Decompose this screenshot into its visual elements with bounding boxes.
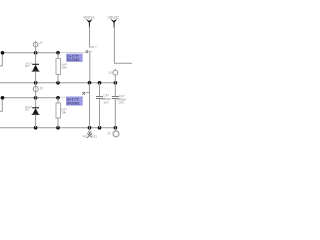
label resistor R2 value (61, 111, 66, 114)
wire rail1 faint segment to net tie (58, 52, 85, 54)
label U2 name (67, 98, 79, 102)
wire rail2 to capacitor C2 (114, 83, 116, 96)
wire rail2 to terminal Z2 (35, 83, 37, 87)
terminal circle Z1 (33, 42, 38, 47)
label Z1 (39, 42, 43, 46)
node rail2 x35.6 (34, 81, 38, 85)
diode Z+2 cathode bar (32, 107, 39, 109)
node rail1 resistor column (56, 51, 60, 55)
wire diode D1 to rail2 (35, 71, 37, 83)
label capacitor C1 value (101, 98, 111, 101)
wire rail1 left segment (3, 52, 59, 54)
label Z4 (108, 132, 112, 136)
svg-text:Z?: Z? (109, 71, 113, 75)
label resistor R2 name (61, 108, 67, 111)
resistor R1 body (56, 59, 61, 75)
net tie X1 (86, 50, 88, 53)
label U1 name (67, 54, 79, 58)
wire left drop row1 (0, 53, 2, 66)
label Z3 (109, 71, 113, 75)
wire rail3 faint segment (58, 96, 84, 98)
diode Z+1 cathode bar (32, 63, 39, 65)
svg-text:NC: NC (25, 65, 29, 68)
node rail4 x58 (56, 126, 60, 130)
wire X1 to VBUS1 wire (86, 51, 92, 53)
label diode Z+1 line2 (25, 65, 29, 68)
svg-text:Q+1?!?: Q+1?!? (67, 54, 79, 58)
svg-text:Z?: Z? (40, 87, 44, 91)
capacitor C2 plates (112, 97, 119, 99)
terminal circle Z4 (113, 131, 119, 137)
svg-text:VBUS2: VBUS2 (108, 16, 120, 20)
node rail1 diode column (34, 51, 38, 55)
svg-text:1KV: 1KV (118, 101, 124, 104)
diode Z+1 anode bar (32, 70, 40, 72)
wire rail4 (0, 127, 115, 129)
selection highlight part label U2 (66, 97, 83, 106)
diode Z+2 triangle (32, 108, 38, 114)
wire Z1 to rail1 (35, 47, 37, 53)
resistor R2 body (56, 103, 61, 118)
node rail4 x99.5 (98, 126, 102, 130)
wire VBUS1 horizontal stub fading (89, 46, 94, 48)
label capacitor C1 name (103, 94, 109, 97)
wire terminal Z1 top stub (35, 41, 37, 43)
net tie X2 (82, 92, 85, 95)
wire rail1 to resistor R1 (57, 53, 59, 59)
label diode Z+1 line1 (25, 62, 32, 65)
label capacitor C2 value (116, 98, 126, 101)
capacitor C1 plates (96, 97, 103, 99)
wire VBUS2 horizontal to right edge (114, 62, 132, 64)
label resistor R1 value (61, 66, 66, 69)
diode Z+1 triangle (32, 65, 38, 71)
wire rail3 to diode D2 (35, 98, 37, 108)
node rail4 x89.5 (88, 126, 92, 130)
spark gap electrodes upper X (88, 131, 91, 135)
terminal circle Z3 (113, 70, 118, 75)
terminal Z2 inner pin (35, 87, 37, 91)
node rail2 x89.5 (88, 81, 92, 85)
label capacitor C2 rating (118, 101, 124, 104)
supply symbol VBUS1 pin wire (89, 27, 91, 48)
supply symbol VBUS2 arrow (110, 19, 117, 28)
wire rail3 left segment (0, 97, 58, 99)
svg-text:1KV: 1KV (103, 101, 109, 104)
svg-text:SA2681: SA2681 (67, 58, 80, 62)
node rail2 x99.5 (98, 81, 102, 85)
selection highlight part label U1 (66, 54, 82, 62)
wire resistor R2 to rail4 (57, 118, 59, 128)
wire rail4 to terminal Z4 (114, 128, 116, 131)
wire VBUS1 horizontal stub faint end (94, 46, 97, 48)
svg-text:PQ: PQ (83, 135, 87, 138)
net label VBUS2 (108, 16, 120, 20)
wire rail2 (0, 82, 115, 84)
supply symbol VBUS1 arrow (86, 19, 93, 28)
node rail4 x35.6 (34, 126, 38, 130)
svg-text:10K: 10K (61, 66, 66, 69)
svg-text:NC: NC (25, 108, 29, 111)
label diode Z+2 line2 (25, 108, 29, 111)
label spark gap left (83, 135, 87, 138)
wire rail1 to diode D1 (35, 53, 37, 64)
svg-text:1000pF: 1000pF (116, 98, 126, 101)
svg-text:Q+1?!?: Q+1?!? (67, 98, 79, 102)
wire rail2 to rail4 at x89.5 (89, 83, 91, 128)
spark gap electrodes lower X (87, 133, 92, 137)
node rail3 resistor column (56, 96, 60, 100)
node rail3 diode column (34, 96, 38, 100)
wire capacitor C1 to rail4 (99, 99, 101, 128)
label capacitor C2 name (119, 95, 125, 98)
wire rail2 to capacitor C1 (99, 83, 101, 96)
label U2 value (67, 102, 80, 106)
svg-text:10K: 10K (61, 111, 66, 114)
node rail3 left (1, 96, 5, 100)
svg-text:?01: ?01 (92, 135, 97, 138)
svg-text:Z?: Z? (39, 42, 43, 46)
label diode Z+2 line1 (25, 106, 32, 109)
label capacitor C1 rating (103, 101, 109, 104)
node rail4 x115.4 (114, 126, 118, 130)
svg-text:Z?: Z? (108, 132, 112, 136)
terminal Z4 inner polygon (113, 132, 118, 137)
wire VBUS2 vertical (113, 27, 115, 64)
node rail2 x58 (56, 81, 60, 85)
wire resistor R1 to rail2 (57, 75, 59, 83)
wire Z2 to rail3 (35, 92, 37, 98)
node rail2 x115.4 (114, 81, 118, 85)
label U1 value (67, 58, 80, 62)
wire rail3 to resistor R2 (57, 98, 59, 103)
wire capacitor C2 to rail4 (114, 99, 116, 128)
node rail1 left (1, 51, 5, 55)
wire X2 to vertical (86, 91, 90, 93)
svg-text:C4?: C4? (103, 94, 109, 97)
svg-text:C4?: C4? (119, 95, 125, 98)
wire diode D2 to rail4 (35, 115, 37, 128)
terminal circle Z2 (33, 87, 38, 92)
wire rail4 to spark gap (89, 128, 91, 132)
wire net tie column to rail2 (89, 52, 91, 83)
wire Z3 to rail2 (114, 75, 116, 83)
label resistor R1 name (62, 63, 68, 66)
wire terminal Z3 top stub (114, 69, 116, 71)
svg-text:VBUS1: VBUS1 (83, 16, 95, 20)
label spark gap right (92, 135, 97, 138)
diode Z+2 anode bar (32, 114, 40, 116)
label Z2 (40, 87, 44, 91)
svg-text:1000pF: 1000pF (101, 98, 111, 101)
net label VBUS1 (83, 16, 95, 20)
terminal Z1 inner pin (35, 43, 37, 47)
svg-text:SA2681: SA2681 (67, 102, 80, 106)
wire left drop row3 (0, 98, 2, 111)
